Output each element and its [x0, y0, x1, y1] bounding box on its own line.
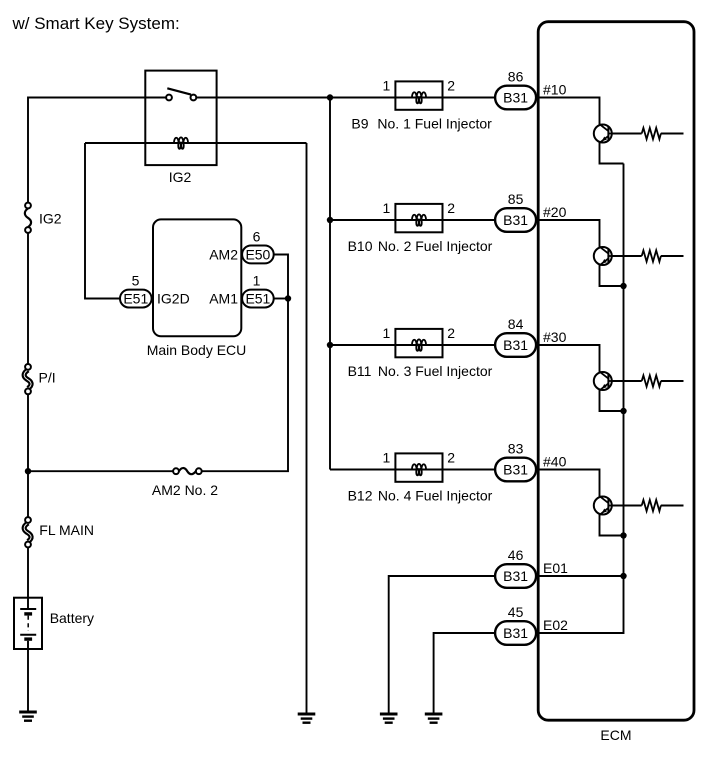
injector B11 coil	[412, 339, 426, 351]
wire: switch to injector bus	[196, 97, 330, 99]
wire: left rail IG2 fuse to P/I fuse	[27, 233, 29, 364]
wire: emitter to ground bus	[600, 265, 624, 286]
svg-text:6: 6	[253, 228, 261, 244]
svg-text:No. 4 Fuel Injector: No. 4 Fuel Injector	[378, 488, 493, 504]
svg-text:84: 84	[508, 316, 524, 332]
wire: AM2 No.2 fuse to AM1/E50 riser	[202, 299, 288, 472]
node: E01 ground bus junction	[620, 573, 626, 579]
connector B31 pin 83	[495, 458, 536, 482]
node: emitter bus junction row 2	[620, 283, 626, 289]
connector B31 pin 84	[495, 333, 536, 357]
connector E51 pin 1 (AM1)	[242, 290, 274, 308]
wire: resistor tail	[661, 380, 684, 382]
node: emitter bus junction row 4	[620, 532, 626, 538]
svg-text:E51: E51	[123, 290, 148, 306]
svg-text:1: 1	[253, 272, 261, 288]
resistor row 2	[642, 250, 661, 261]
wire: emitter to ground bus	[600, 143, 624, 164]
ground: E02	[425, 714, 443, 723]
svg-text:B12: B12	[348, 488, 373, 504]
svg-text:AM2: AM2	[209, 246, 238, 262]
svg-text:B9: B9	[351, 116, 368, 132]
wire: bus to injector 2	[330, 219, 395, 221]
connector B31 pin 45 (E02)	[495, 621, 536, 645]
wire: bus to injector 3	[330, 344, 395, 346]
wire: injector 1 to ECM pin	[443, 97, 496, 99]
injector B12 coil	[412, 464, 426, 476]
svg-text:1: 1	[383, 450, 391, 466]
svg-text:#30: #30	[543, 329, 567, 345]
wire: junction to AM2 No.2 fuse	[28, 470, 173, 472]
node: bus junction row 3	[327, 342, 333, 348]
svg-text:1: 1	[383, 78, 391, 94]
battery	[14, 598, 42, 649]
fuse AM2 No. 2	[173, 468, 202, 474]
injector B11 coil wire	[395, 344, 442, 346]
svg-text:E51: E51	[245, 290, 270, 306]
wire: left rail top horizontal to IG2 relay	[28, 98, 145, 203]
wire: base to resistor	[612, 380, 642, 382]
Main Body ECU box	[153, 219, 241, 336]
svg-text:2: 2	[447, 325, 455, 341]
ground: E01	[380, 714, 398, 723]
node: bus junction row 1	[327, 94, 333, 100]
wire: resistor tail	[661, 255, 684, 257]
svg-text:#10: #10	[543, 82, 567, 98]
svg-text:IG2: IG2	[39, 211, 62, 227]
svg-text:1: 1	[383, 325, 391, 341]
svg-text:No. 3 Fuel Injector: No. 3 Fuel Injector	[378, 363, 493, 379]
transistor Q4	[594, 496, 612, 515]
svg-text:No. 1 Fuel Injector: No. 1 Fuel Injector	[377, 116, 492, 132]
node: junction left rail / AM2 No.2 branch	[25, 468, 31, 474]
fusible link P/I	[24, 364, 31, 394]
resistor row 3	[642, 375, 661, 386]
wire: base to resistor	[612, 505, 642, 507]
wire: E01 to left ground	[389, 576, 495, 714]
injector B10 coil wire	[395, 219, 442, 221]
ground: battery	[19, 712, 37, 721]
svg-text:#40: #40	[543, 454, 567, 470]
wire: ECM internal ground bus vertical	[623, 164, 625, 577]
wire: base to resistor	[612, 255, 642, 257]
relay coil	[174, 137, 188, 149]
connector E50 pin 6 (AM2)	[242, 246, 274, 264]
wire: relay coil horizontal	[85, 142, 307, 144]
svg-text:ECM: ECM	[600, 727, 631, 743]
relay switch contacts	[166, 95, 196, 101]
node: AM1 junction	[285, 295, 291, 301]
wire: resistor tail	[661, 133, 684, 135]
node: bus junction row 2	[327, 217, 333, 223]
injector B10 box	[395, 204, 442, 232]
wire: left rail FL MAIN to battery	[27, 547, 29, 598]
wire: ECM pin into ECM to transistor	[537, 470, 600, 497]
svg-text:AM1: AM1	[209, 290, 238, 306]
svg-text:86: 86	[508, 69, 524, 85]
wire: battery to ground	[27, 649, 29, 713]
wire: injector 3 to ECM pin	[443, 344, 496, 346]
wire: injector 4 to ECM pin	[443, 469, 496, 471]
svg-text:#20: #20	[543, 204, 567, 220]
wire: resistor tail	[661, 505, 684, 507]
svg-text:IG2D: IG2D	[157, 290, 190, 306]
relay IG2 box	[145, 71, 216, 166]
svg-text:5: 5	[132, 272, 140, 288]
fusible link FL MAIN	[24, 517, 31, 547]
wire: ECM pin into ECM to transistor	[537, 98, 600, 125]
svg-text:1: 1	[383, 200, 391, 216]
svg-text:E01: E01	[543, 560, 568, 576]
svg-text:Battery: Battery	[50, 610, 94, 626]
injector B11 box	[395, 329, 442, 357]
svg-text:B10: B10	[348, 238, 373, 254]
transistor Q3	[594, 372, 612, 391]
wire: bus to injector 4	[330, 469, 395, 471]
connector B31 pin 85	[495, 208, 536, 232]
svg-text:2: 2	[447, 200, 455, 216]
wire: E02 riser to E01 junction	[537, 576, 624, 633]
injector B9 coil wire	[395, 97, 442, 99]
svg-text:IG2: IG2	[169, 169, 192, 185]
wire: emitter to ground bus	[600, 390, 624, 411]
wire: coil right lead down to ground	[306, 143, 308, 714]
relay switch lever	[167, 88, 191, 94]
wire: emitter to ground bus	[600, 515, 624, 536]
wire: E50 to riser corner	[274, 255, 288, 299]
svg-text:46: 46	[508, 547, 524, 563]
ECM box	[538, 22, 694, 721]
svg-text:AM2 No. 2: AM2 No. 2	[152, 482, 218, 498]
svg-text:FL MAIN: FL MAIN	[39, 522, 94, 538]
svg-text:w/ Smart Key System:: w/ Smart Key System:	[12, 14, 180, 33]
connector B31 pin 46 (E01)	[495, 564, 536, 588]
transistor Q2	[594, 247, 612, 266]
svg-text:Main Body ECU: Main Body ECU	[147, 342, 247, 358]
injector B12 coil wire	[395, 469, 442, 471]
wire: switch wire inside relay, left part	[145, 97, 166, 99]
svg-text:2: 2	[447, 450, 455, 466]
svg-text:83: 83	[508, 441, 524, 457]
svg-text:B11: B11	[348, 363, 372, 379]
svg-text:P/I: P/I	[39, 370, 56, 386]
resistor row 4	[642, 500, 661, 511]
wire: bus to injector 1	[330, 97, 395, 99]
wire: injector 2 to ECM pin	[443, 219, 496, 221]
wire: coil left lead down to E51 pin 5	[85, 143, 120, 299]
svg-text:85: 85	[508, 191, 524, 207]
connector B31 pin 86	[495, 86, 536, 110]
svg-text:No. 2 Fuel Injector: No. 2 Fuel Injector	[378, 238, 493, 254]
wire: injector supply bus vertical	[329, 98, 331, 470]
injector B9 box	[395, 81, 442, 109]
fuse IG2	[25, 203, 31, 233]
ground: relay coil	[298, 714, 316, 723]
wire: ECM pin into ECM to transistor	[537, 345, 600, 372]
wire: ECM pin into ECM to transistor	[537, 220, 600, 247]
node: emitter bus junction row 3	[620, 408, 626, 414]
wire: base to resistor	[612, 133, 642, 135]
wire: E02 to left ground	[434, 633, 496, 714]
wire: left rail P/I fuse to FL MAIN fuse	[27, 394, 29, 517]
transistor Q1	[594, 124, 612, 143]
connector E51 pin 5 (Main Body ECU left)	[120, 290, 152, 308]
svg-text:E02: E02	[543, 617, 568, 633]
injector B10 coil	[412, 214, 426, 226]
resistor row 1	[642, 128, 661, 139]
wire: E51 AM1 to junction	[274, 298, 288, 300]
svg-text:45: 45	[508, 604, 524, 620]
svg-text:E50: E50	[245, 246, 270, 262]
injector B9 coil	[412, 92, 426, 104]
injector B12 box	[395, 453, 442, 481]
svg-text:2: 2	[447, 78, 455, 94]
wire: E01 to ground bus	[537, 575, 624, 577]
